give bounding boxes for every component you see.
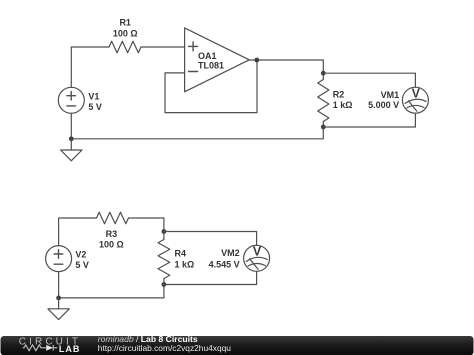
footer CircuitLab logo (19, 337, 81, 355)
wire V1 bottom to rail junction (70, 113, 72, 139)
svg-text:R2: R2 (333, 89, 345, 99)
voltage source V1 (58, 87, 84, 113)
wire op-amp output to R2 top (249, 60, 323, 73)
node V1 ground junction (69, 136, 74, 141)
wire V1 top to R1 left lead (71, 47, 109, 87)
voltage source V2 (46, 246, 72, 272)
svg-text:4.545 V: 4.545 V (209, 259, 240, 269)
wire VM1 bottom to R2 bottom (323, 113, 415, 127)
svg-text:1 kΩ: 1 kΩ (175, 259, 195, 269)
svg-text:5 V: 5 V (88, 102, 102, 112)
voltmeter VM2 (244, 245, 270, 271)
svg-text:V2: V2 (75, 249, 86, 259)
svg-text:VM2: VM2 (221, 248, 240, 258)
node output junction (254, 58, 259, 63)
svg-text:5.000 V: 5.000 V (368, 100, 399, 110)
voltmeter VM1 (402, 87, 428, 113)
label R2 value (333, 89, 353, 110)
label VM1 V symbol (412, 86, 421, 100)
node R2 bottom junction (321, 125, 326, 130)
footer bar (1, 336, 474, 355)
svg-text:100 Ω: 100 Ω (113, 28, 138, 38)
label V1 value (88, 91, 102, 112)
label VM1 value (368, 90, 399, 110)
ground (bottom circuit) (48, 298, 69, 320)
node R2 top junction (321, 71, 326, 76)
svg-text:R1: R1 (119, 18, 131, 28)
wire R4 bottom to ground rail (59, 285, 164, 298)
label R4 value (175, 249, 195, 270)
label OA1 (198, 51, 224, 71)
svg-text:TL081: TL081 (198, 61, 224, 71)
svg-text:OA1: OA1 (198, 51, 217, 61)
wire R4 bottom to VM2 bottom (164, 271, 257, 284)
resistor R2 (318, 73, 329, 127)
wire V2 top to R3 left lead (59, 218, 97, 246)
resistor R1 (109, 41, 141, 53)
label VM2 V symbol (253, 244, 262, 258)
wire V2 bottom to rail junction (58, 272, 60, 298)
label R3 value (99, 229, 124, 250)
wire R4 top to VM2 top (164, 232, 257, 246)
label V2 value (75, 249, 89, 270)
svg-text:5 V: 5 V (75, 260, 89, 270)
svg-text:V: V (253, 244, 262, 258)
wire R2 top to VM1 top (323, 73, 415, 87)
label VM2 value (209, 248, 240, 270)
node V2 ground junction (56, 296, 61, 301)
resistor R3 (97, 212, 129, 224)
wire feedback loop (output to inverting input) (165, 61, 257, 113)
svg-text:R3: R3 (106, 229, 118, 239)
wire R1 to op-amp noninverting input (141, 46, 185, 48)
svg-text:V: V (412, 86, 421, 100)
ground (top circuit) (61, 139, 82, 161)
svg-text:100 Ω: 100 Ω (99, 240, 124, 250)
node R4 top junction (162, 229, 167, 234)
svg-text:R4: R4 (175, 249, 187, 259)
wire R2 bottom to ground rail (71, 127, 323, 139)
svg-text:VM1: VM1 (381, 90, 400, 100)
wire R3 to R4 top (129, 218, 164, 232)
svg-text:http://circuitlab.com/c2vqz2hu: http://circuitlab.com/c2vqz2hu4xqqu (98, 343, 231, 353)
svg-text:V1: V1 (88, 91, 99, 101)
resistor R4 (158, 232, 170, 285)
label R1 value (113, 18, 138, 39)
svg-text:1 kΩ: 1 kΩ (333, 100, 353, 110)
svg-text:LAB: LAB (59, 344, 81, 354)
node R4 bottom junction (162, 282, 167, 287)
footer title text (98, 334, 231, 353)
op-amp OA1 (185, 28, 250, 92)
